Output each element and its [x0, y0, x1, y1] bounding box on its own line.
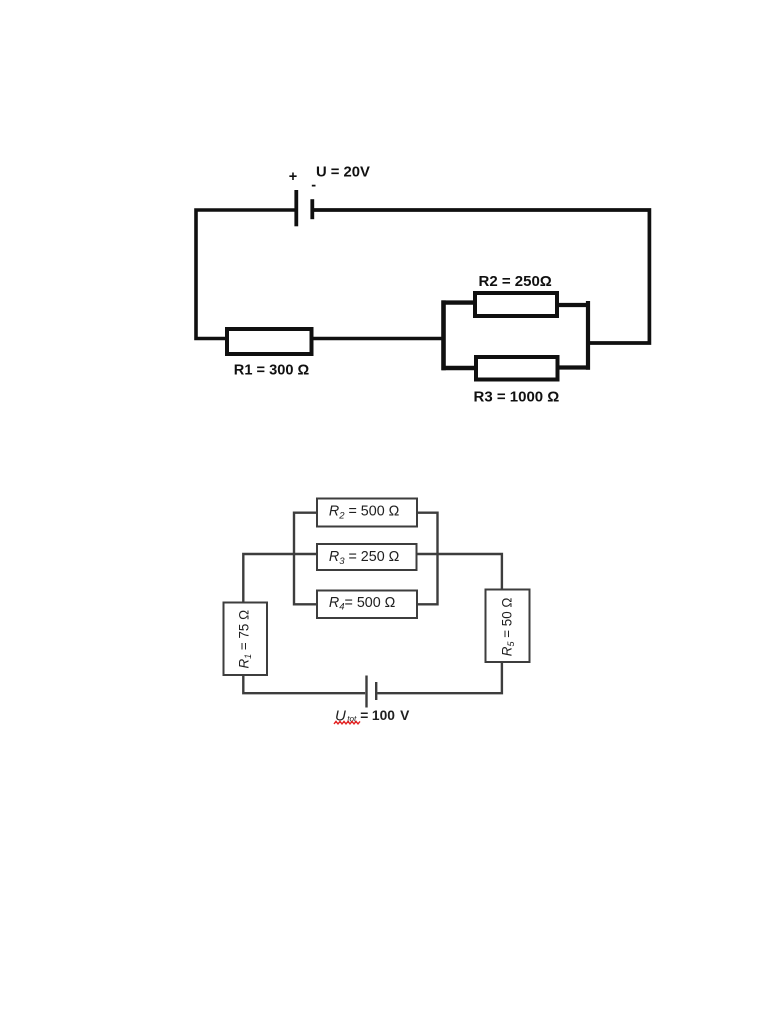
wire: battery negative to R5 bottom: [377, 663, 502, 693]
resistor R4 (500 ohm): [317, 591, 417, 619]
svg-text:R2 = 250Ω: R2 = 250Ω: [479, 273, 552, 290]
resistor R3 (250 ohm): [317, 544, 417, 570]
wire: R1 bottom to battery positive: [243, 676, 365, 693]
resistor R1: [227, 329, 312, 354]
svg-text:R5 = 50 Ω: R5 = 50 Ω: [499, 598, 516, 657]
svg-text:Utot=100V: Utot=100V: [335, 707, 410, 724]
wire: right stub from R3: [558, 365, 590, 369]
svg-text:R1 = 75 Ω: R1 = 75 Ω: [237, 610, 254, 669]
wire: left stub to R3: [442, 366, 476, 370]
resistor R2: [475, 293, 557, 316]
svg-text:R4= 500 Ω: R4= 500 Ω: [329, 595, 396, 613]
battery B2 long plate: [365, 676, 367, 708]
wire: inner-left bus joining R2,R4 branch: [294, 513, 317, 605]
wire: R3 branch right to far-right rail into R5: [417, 554, 502, 589]
wire: left bus of parallel block: [441, 300, 446, 370]
resistor R1 (75 ohm, vertical): [224, 603, 268, 676]
svg-text:R3 = 1000 Ω: R3 = 1000 Ω: [474, 389, 560, 406]
resistor R5 (50 ohm, vertical): [486, 590, 530, 663]
spellcheck squiggle under Utot: [334, 721, 360, 724]
resistor R3: [476, 357, 558, 380]
battery B2 short plate: [375, 682, 377, 700]
wire: R3 branch left to far-left rail into R1: [243, 554, 316, 602]
svg-text:R1 = 300 Ω: R1 = 300 Ω: [234, 363, 310, 379]
wire: right bus of parallel block: [586, 301, 590, 370]
wire: right stub from R2: [557, 303, 590, 307]
wire: R1 output to parallel block input: [312, 337, 444, 341]
wire: top-right loop (battery- to right rail down to parallel block output): [314, 210, 650, 343]
battery B1 positive plate: [294, 190, 298, 226]
resistor R2 (500 ohm): [317, 499, 417, 527]
wire: top-left loop (battery+ to left rail down to R1): [196, 210, 295, 339]
wire: left stub to R2: [442, 300, 475, 304]
wire: inner-right bus joining R2,R4 branch: [418, 513, 438, 605]
battery B1 negative plate: [310, 199, 314, 219]
svg-text:+: +: [289, 169, 297, 185]
svg-text:U = 20V: U = 20V: [316, 164, 370, 180]
